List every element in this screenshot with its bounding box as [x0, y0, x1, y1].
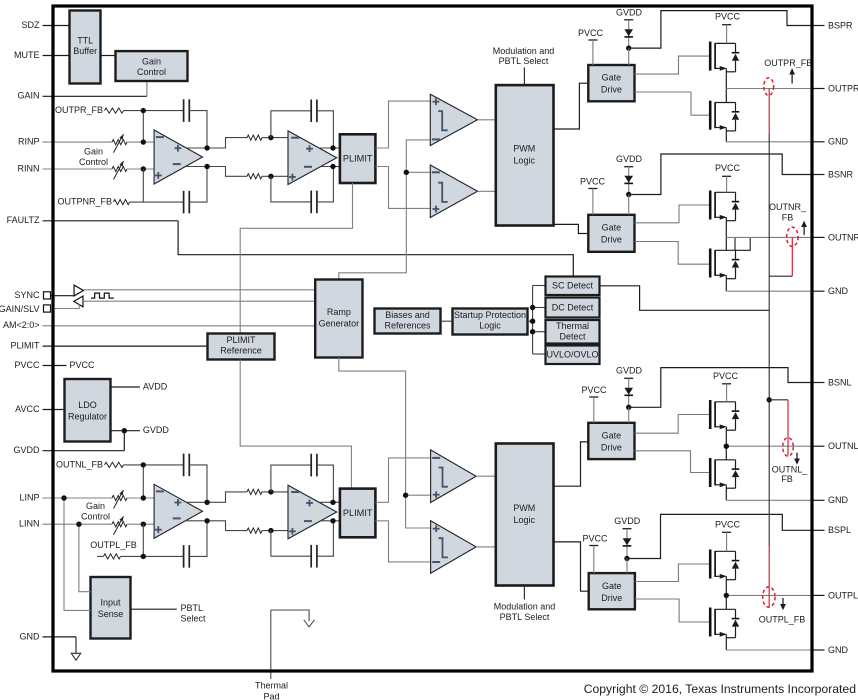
- svg-text:OUTNL_: OUTNL_: [772, 465, 809, 475]
- svg-text:PVCC: PVCC: [715, 519, 741, 529]
- svg-text:Control: Control: [79, 157, 108, 167]
- svg-text:Buffer: Buffer: [73, 46, 97, 56]
- wire RINP to opamp: [127, 141, 154, 143]
- junction bus DC: [530, 305, 535, 310]
- wire Gate Drive 1 to low FET gate: [635, 92, 709, 115]
- wire LDO GVDD out: [111, 430, 140, 432]
- pin OUTPL: [811, 594, 825, 596]
- arrow OUTPR_FB: [791, 74, 793, 84]
- svg-text:Logic: Logic: [514, 155, 536, 165]
- svg-text:OUTNR_: OUTNR_: [769, 202, 807, 212]
- svg-text:OUTPR_FB: OUTPR_FB: [764, 58, 812, 68]
- block SC Detect: [546, 277, 600, 296]
- wire sync buffer to ramp generator: [83, 289, 315, 291]
- svg-text:GVDD: GVDD: [616, 154, 643, 164]
- junction opamp3 bottom output: [204, 518, 209, 523]
- block PLIMIT Reference: [208, 334, 275, 360]
- sense ellipse OUTNR_FB: [787, 227, 798, 246]
- wire PLIMIT top out to comparator1: [375, 101, 430, 148]
- svg-text:Generator: Generator: [319, 318, 360, 328]
- wire OUTPR_FB to RINP node: [142, 111, 144, 143]
- pin BSNR: [811, 174, 825, 176]
- svg-text:AM<2:0>: AM<2:0>: [3, 320, 40, 330]
- wire stage2 top cap right L: [317, 465, 334, 502]
- junction bus thermal: [530, 329, 535, 334]
- sense ellipse OUTNL_FB: [783, 438, 794, 457]
- sense ellipse OUTPL_FB: [763, 587, 775, 607]
- svg-text:OUTNL_FB: OUTNL_FB: [56, 459, 103, 469]
- wire PWM L to Gate Drive 3: [554, 442, 589, 486]
- svg-text:LINP: LINP: [19, 492, 39, 502]
- wire bootstrap BSPR: [629, 11, 813, 49]
- junction OUTNL_FB: [141, 462, 146, 467]
- svg-text:GND: GND: [828, 645, 849, 655]
- buffer SYNC input: [74, 296, 83, 307]
- svg-text:Drive: Drive: [601, 593, 622, 603]
- svg-text:GVDD: GVDD: [614, 516, 641, 526]
- capacitor stage2 top feedback L: [310, 454, 312, 477]
- junction opamp4 top output: [330, 500, 335, 505]
- wire OUTPL_FB node: [121, 555, 184, 557]
- resistor gain LINN: [112, 522, 127, 527]
- wire OUTNL_FB node: [124, 464, 184, 466]
- svg-text:Control: Control: [81, 511, 110, 521]
- svg-text:Drive: Drive: [601, 235, 622, 245]
- wire feedback bus vertical: [768, 134, 770, 546]
- wire to opamp2 plus: [262, 175, 288, 177]
- svg-text:SDZ: SDZ: [22, 20, 41, 30]
- svg-text:Gate: Gate: [602, 73, 622, 83]
- wire label to PWM top: [523, 67, 525, 85]
- svg-text:Ramp: Ramp: [327, 307, 351, 317]
- svg-text:DC Detect: DC Detect: [552, 302, 594, 312]
- resistor stage2 top L: [247, 489, 262, 494]
- svg-text:MUTE: MUTE: [14, 50, 40, 60]
- svg-text:BSNR: BSNR: [828, 169, 854, 179]
- capacitor stage1 bottom feedback: [183, 191, 185, 214]
- svg-text:Pad: Pad: [263, 691, 279, 700]
- svg-text:GND: GND: [828, 495, 849, 505]
- capacitor stage2 bottom feedback L: [310, 545, 312, 568]
- svg-text:PVCC: PVCC: [582, 533, 608, 543]
- svg-text:GND: GND: [828, 137, 849, 147]
- svg-text:Drive: Drive: [601, 442, 622, 452]
- wire OUTPNR_FB node: [130, 201, 184, 203]
- resistor stage2 top R: [247, 135, 262, 140]
- comparator 1: [430, 94, 477, 145]
- svg-text:References: References: [384, 321, 431, 331]
- svg-text:Gain: Gain: [86, 501, 105, 511]
- resistor OUTNL_FB: [105, 462, 124, 467]
- svg-text:OUTNR: OUTNR: [828, 232, 858, 242]
- block Thermal Detect: [546, 320, 600, 344]
- svg-text:PVCC: PVCC: [715, 163, 741, 173]
- svg-text:Thermal: Thermal: [255, 681, 288, 691]
- wire OUTNR jog: [734, 237, 736, 250]
- junction opamp2 top output: [330, 145, 335, 150]
- resistor OUTPR_FB: [105, 108, 124, 113]
- capacitor stage1 top feedback: [183, 99, 185, 122]
- wire stage2 top cap right: [317, 111, 334, 148]
- svg-text:GVDD: GVDD: [143, 425, 170, 435]
- wire GND to ground symbol: [75, 637, 77, 653]
- wire SC Detect output: [600, 286, 770, 311]
- block Input Sense: [91, 577, 131, 639]
- wire Gate Drive 4 to high FET gate: [635, 564, 709, 582]
- svg-text:GND: GND: [20, 631, 41, 641]
- wire comparator3 to PWM L: [476, 475, 496, 477]
- svg-text:PWM: PWM: [513, 503, 535, 513]
- svg-text:PVCC: PVCC: [578, 28, 604, 38]
- wire stage2 bottom cap left: [271, 176, 311, 202]
- svg-text:Copyright © 2016, Texas Instru: Copyright © 2016, Texas Instruments Inco…: [584, 682, 856, 696]
- resistor gain LINP: [112, 495, 127, 500]
- wire bus to UVLO: [533, 353, 546, 355]
- wire GND R negative: [726, 290, 811, 292]
- svg-text:PLIMIT: PLIMIT: [343, 154, 373, 164]
- wire TTL Buffer to Gain Control: [101, 55, 116, 57]
- pin GND: [811, 649, 825, 651]
- sync waveform symbol: [91, 293, 114, 298]
- gain arrow LINN: [114, 516, 124, 535]
- svg-text:FB: FB: [781, 474, 793, 484]
- wire cap to opamp3 output: [189, 465, 207, 502]
- wire stage2 top cap left L: [271, 465, 311, 492]
- wire LINP to opamp3: [127, 497, 154, 499]
- capacitor stage1 top feedback L: [183, 454, 185, 477]
- svg-text:PBTL Select: PBTL Select: [499, 56, 549, 66]
- svg-text:Gate: Gate: [602, 223, 622, 233]
- op-amp second stage R: [288, 131, 337, 185]
- wire Gate Drive 3 to low FET gate: [635, 451, 709, 473]
- pin GND: [811, 141, 825, 143]
- wire Gate Drive 1 to high FET gate: [635, 56, 709, 74]
- wire label to PWM bottom: [523, 586, 525, 600]
- svg-text:Thermal: Thermal: [556, 321, 589, 331]
- wire GAIN to Gain Control: [146, 81, 148, 96]
- wire ramp to comparator1 minus: [339, 140, 431, 280]
- svg-text:GAIN: GAIN: [17, 91, 39, 101]
- wire ramp to comparator3 plus: [406, 494, 431, 496]
- comparator 2: [430, 165, 477, 218]
- wire GND R positive: [726, 141, 811, 143]
- junction LINP: [141, 495, 146, 500]
- svg-text:PVCC: PVCC: [715, 11, 741, 21]
- wire bootstrap BSNL: [629, 368, 813, 408]
- transistor low-side L negative: [709, 458, 712, 487]
- svg-text:GAIN/SLV: GAIN/SLV: [0, 304, 40, 314]
- wire PLIMIT L bottom out to comparator4: [375, 521, 430, 562]
- svg-text:Select: Select: [181, 614, 207, 624]
- wire feedback red OUTPR: [768, 89, 770, 134]
- svg-text:Input: Input: [100, 597, 121, 607]
- svg-text:OUTPNR_FB: OUTPNR_FB: [57, 196, 112, 206]
- junction OUTNL mid: [724, 444, 729, 449]
- svg-text:PVCC: PVCC: [70, 360, 96, 370]
- svg-text:PVCC: PVCC: [713, 371, 739, 381]
- arrow OUTNL_FB: [796, 453, 798, 459]
- wire opamp1 bottom output: [186, 167, 247, 177]
- wire Gate Drive 4 to low FET gate: [635, 599, 709, 622]
- svg-text:OUTPL_FB: OUTPL_FB: [759, 615, 806, 625]
- wire comparator2 to PWM: [478, 190, 496, 192]
- wire OUTNR: [726, 236, 811, 238]
- wire GND L positive: [726, 649, 811, 651]
- block Ramp Generator: [315, 280, 362, 358]
- wire opamp3 bottom output: [186, 521, 247, 531]
- junction opamp4 minus input: [268, 489, 273, 494]
- wire to opamp4 minus: [262, 491, 288, 493]
- svg-text:BSPR: BSPR: [828, 20, 853, 30]
- svg-text:PWM: PWM: [513, 144, 535, 154]
- svg-text:PLIMIT: PLIMIT: [226, 335, 256, 345]
- block PLIMIT L: [340, 489, 376, 538]
- wire PWM to Gate Drive 1: [554, 83, 589, 129]
- junction bus startup: [530, 319, 535, 324]
- sense ellipse OUTPR_FB: [764, 78, 774, 96]
- svg-text:Modulation and: Modulation and: [494, 601, 556, 611]
- wire bus to DC Detect: [533, 307, 546, 309]
- block Gain Control: [116, 51, 188, 81]
- svg-text:UVLO/OVLO: UVLO/OVLO: [546, 350, 598, 360]
- wire Gate Drive 3 to high FET gate: [635, 415, 709, 434]
- wire stage2 bottom cap right L: [317, 521, 334, 556]
- wire bus to Thermal Detect: [533, 331, 546, 333]
- comparator 3: [431, 450, 477, 503]
- junction ramp node top: [404, 170, 409, 175]
- wire PWM L to Gate Drive 4: [554, 542, 589, 591]
- wire comparator1 to PWM: [478, 119, 496, 121]
- svg-text:PVCC: PVCC: [580, 176, 606, 186]
- transistor high-side R positive: [709, 42, 712, 71]
- block DC Detect: [546, 298, 600, 318]
- junction opamp1 bottom output: [204, 164, 209, 169]
- pin OUTNR: [811, 236, 825, 238]
- pin BSNL: [811, 382, 825, 384]
- wire bootstrap BSNR: [629, 154, 813, 195]
- svg-text:OUTPL: OUTPL: [828, 590, 858, 600]
- transistor low-side L positive: [709, 608, 712, 637]
- svg-text:AVCC: AVCC: [15, 404, 40, 414]
- pin BSPR: [811, 25, 825, 27]
- svg-text:Gate: Gate: [602, 430, 622, 440]
- svg-text:PLIMIT: PLIMIT: [10, 340, 40, 350]
- wire OUTPR_FB node: [124, 110, 184, 112]
- block Gate Drive 4: [589, 573, 635, 609]
- transistor low-side R negative: [709, 249, 712, 278]
- transistor high-side L positive: [709, 550, 712, 579]
- wire opamp4 top output to PLIMIT L: [319, 501, 340, 503]
- svg-text:GND: GND: [828, 286, 849, 296]
- wire stage2 top cap left: [271, 111, 311, 138]
- resistor OUTPNR_FB: [114, 200, 130, 205]
- transistor high-side L negative: [709, 400, 712, 429]
- wire OUTPL: [726, 594, 811, 596]
- junction LINN: [141, 522, 146, 527]
- wire cap to opamp3 output bottom: [189, 521, 207, 557]
- junction OUTPR_FB: [141, 108, 146, 113]
- pin OUTNL: [811, 445, 825, 447]
- wire LINN to opamp3: [127, 523, 154, 525]
- capacitor stage1 bottom feedback L: [183, 545, 185, 568]
- junction OUTPL_FB: [141, 554, 146, 559]
- wire opamp2 top output to PLIMIT: [319, 147, 340, 149]
- thermal pad arrow: [304, 620, 315, 627]
- junction opamp4 bottom output: [330, 518, 335, 523]
- pin GND: [811, 290, 825, 292]
- svg-text:AVDD: AVDD: [143, 381, 168, 391]
- block Gate Drive 2: [588, 215, 634, 252]
- resistor stage2 bottom R: [247, 174, 262, 179]
- op-amp input stage R: [154, 130, 202, 184]
- wire bus to SC Detect: [533, 285, 546, 287]
- wire opamp2 bottom output to PLIMIT: [321, 166, 340, 168]
- wire thermal pad lead: [270, 610, 272, 679]
- svg-text:Startup Protection: Startup Protection: [454, 310, 526, 320]
- svg-text:PLIMIT: PLIMIT: [343, 508, 373, 518]
- junction LINP branch: [61, 495, 66, 500]
- op-amp input stage L: [154, 484, 202, 538]
- wire bootstrap BSPL: [627, 514, 813, 558]
- svg-text:PVCC: PVCC: [14, 360, 40, 370]
- block Gate Drive 3: [588, 423, 634, 459]
- svg-text:Gate: Gate: [602, 581, 622, 591]
- svg-text:GVDD: GVDD: [616, 365, 643, 375]
- wire to opamp2 minus: [262, 137, 288, 139]
- svg-text:PVCC: PVCC: [581, 385, 607, 395]
- wire RINN to OUTPNR_FB node: [142, 169, 144, 202]
- svg-text:OUTNL: OUTNL: [828, 441, 858, 451]
- junction opamp2 plus input: [268, 174, 273, 179]
- wire PWM to Gate Drive 2: [554, 224, 589, 233]
- wire cap to opamp output: [189, 111, 207, 148]
- svg-text:SYNC: SYNC: [14, 290, 40, 300]
- junction feedback OUTNL: [767, 397, 772, 402]
- junction opamp4 plus input: [268, 528, 273, 533]
- wire PLIMIT L top out to comparator3: [375, 458, 430, 502]
- svg-text:RINP: RINP: [18, 136, 40, 146]
- junction opamp2 bottom output: [330, 164, 335, 169]
- svg-text:GVDD: GVDD: [616, 7, 643, 17]
- wire PBTL Select: [131, 608, 177, 610]
- svg-text:OUTPR_FB: OUTPR_FB: [55, 105, 103, 115]
- gain arrow LINP: [114, 490, 124, 509]
- svg-text:FB: FB: [782, 212, 794, 222]
- wire opamp3 top output: [186, 492, 247, 502]
- block PWM Logic R: [496, 85, 554, 225]
- transistor high-side R negative: [709, 191, 712, 220]
- resistor OUTPL_FB: [104, 554, 121, 559]
- block LDO Regulator: [65, 379, 111, 442]
- wire AVDD: [111, 386, 140, 388]
- wire LINP to Input Sense: [64, 498, 91, 610]
- wire OUTNL: [726, 445, 811, 447]
- gain arrow RINP: [114, 134, 124, 153]
- svg-text:RINN: RINN: [18, 163, 40, 173]
- block Gate Drive 1: [588, 65, 634, 101]
- ground symbol: [71, 653, 80, 660]
- wire Gate Drive 2 to high FET gate: [635, 205, 709, 223]
- wire PLIMIT to PLIMIT Reference: [240, 183, 352, 334]
- wire thermal pad: [271, 610, 309, 621]
- arrow OUTNR_FB: [803, 227, 805, 235]
- svg-text:Drive: Drive: [601, 85, 622, 95]
- pin GND: [811, 499, 825, 501]
- wire cap to opamp output bottom: [189, 167, 207, 203]
- block PWM Logic L: [496, 444, 554, 586]
- junction RINP: [141, 139, 146, 144]
- junction opamp1 top output: [204, 145, 209, 150]
- svg-text:Modulation and: Modulation and: [493, 46, 555, 56]
- block UVLO/OVLO: [546, 346, 600, 365]
- capacitor stage2 top feedback: [310, 100, 312, 123]
- wire Gate Drive 2 to low FET gate: [635, 242, 709, 265]
- wire LINN to OUTPL_FB node: [142, 524, 144, 556]
- wire feedback red OUTPL: [768, 546, 770, 608]
- block Startup Protection Logic: [453, 309, 528, 335]
- svg-text:PBTL: PBTL: [181, 603, 204, 613]
- wire feedback stub OUTNR: [769, 275, 792, 277]
- wire feedback red OUTNL: [787, 400, 789, 456]
- wire detect bus: [532, 286, 534, 355]
- wire ramp to comparator2 minus: [406, 171, 430, 173]
- pin BSPL: [811, 529, 825, 531]
- arrow OUTPL_FB: [782, 598, 784, 605]
- svg-text:BSNL: BSNL: [828, 377, 852, 387]
- junction ramp node bottom: [403, 493, 408, 498]
- svg-text:BSPL: BSPL: [828, 525, 851, 535]
- block PLIMIT R: [340, 134, 376, 183]
- svg-text:FAULTZ: FAULTZ: [7, 215, 40, 225]
- block TTL Buffer: [70, 11, 101, 84]
- transistor low-side R positive: [709, 101, 712, 130]
- svg-text:Logic: Logic: [514, 515, 536, 525]
- svg-text:GVDD: GVDD: [13, 445, 40, 455]
- junction LINN branch: [76, 522, 81, 527]
- wire comparator4 to PWM L: [476, 546, 496, 548]
- resistor gain RINN: [112, 166, 127, 171]
- wire opamp1 top output: [186, 138, 247, 148]
- svg-text:LINN: LINN: [19, 519, 40, 529]
- wire feedback red OUTNR: [791, 238, 793, 277]
- op-amp second stage L: [288, 485, 337, 539]
- svg-text:Logic: Logic: [479, 321, 501, 331]
- svg-text:OUTPR: OUTPR: [828, 83, 858, 93]
- wire feedback stub OUTNL: [769, 399, 788, 401]
- wire opamp4 bottom output to PLIMIT L: [321, 520, 340, 522]
- svg-text:Gain: Gain: [84, 146, 103, 156]
- svg-text:PBTL Select: PBTL Select: [500, 612, 550, 622]
- svg-text:Detect: Detect: [559, 332, 586, 342]
- wire RINN to opamp: [127, 168, 154, 170]
- wire FAULTZ to SC Detect: [178, 221, 573, 277]
- wire PLIMIT Reference to PLIMIT L: [240, 360, 351, 489]
- junction GVDD out: [122, 428, 127, 433]
- svg-text:Regulator: Regulator: [68, 411, 107, 421]
- junction opamp3 top output: [204, 500, 209, 505]
- svg-text:Biases and: Biases and: [385, 310, 430, 320]
- junction OUTPL mid: [724, 593, 729, 598]
- gain arrow RINN: [114, 161, 124, 180]
- wire stage2 bottom cap left L: [271, 531, 311, 557]
- junction opamp2 minus input: [268, 135, 273, 140]
- svg-text:Sense: Sense: [98, 609, 124, 619]
- resistor stage2 bottom L: [247, 528, 262, 533]
- wire GVDD to LDO output: [123, 431, 125, 451]
- wire LINN to Input Sense: [79, 524, 91, 592]
- wire GND L negative: [726, 499, 811, 501]
- wire stage2 bottom cap right: [317, 167, 334, 202]
